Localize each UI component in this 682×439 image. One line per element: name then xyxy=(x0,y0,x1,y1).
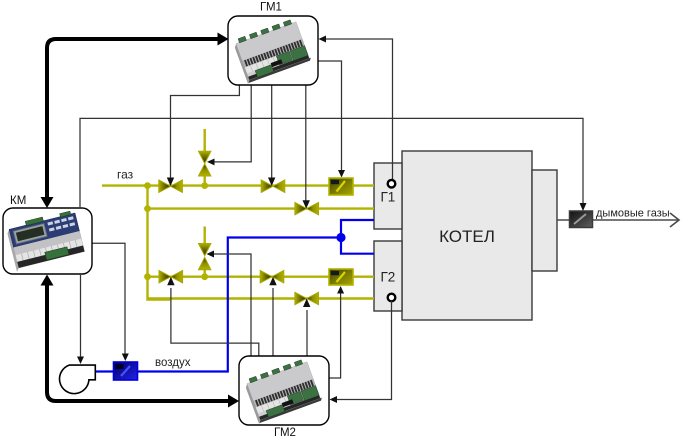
wire ГМ2 to Г2 line2 valve xyxy=(303,299,310,357)
wire ГМ2 to VA xyxy=(167,277,259,356)
wire ГМ2 to SV2 xyxy=(207,251,252,357)
damper2 (yellow) xyxy=(329,269,353,285)
blue node xyxy=(336,233,345,242)
node under SV1 xyxy=(201,182,208,189)
node under SV2 xyxy=(201,273,208,280)
wire КМ to air damper xyxy=(92,243,129,361)
svg-text:Г2: Г2 xyxy=(381,270,396,285)
wire ГМ2 to VB xyxy=(269,277,276,356)
wire ГМ1 to line2 valve xyxy=(303,85,310,209)
svg-text:дымовые газы: дымовые газы xyxy=(596,208,670,220)
valve VA Г2 line1 xyxy=(159,271,183,283)
wire ГМ1 to SV1 xyxy=(207,85,251,165)
flue outlet box xyxy=(532,170,557,271)
gas line 2 (Г1 lower) xyxy=(148,207,375,209)
node gas1 xyxy=(144,182,151,189)
burner Г1 box xyxy=(374,163,402,229)
flue damper xyxy=(570,211,593,228)
damper1 (yellow) xyxy=(329,178,353,195)
svg-text:ГМ1: ГМ1 xyxy=(260,2,282,14)
svg-text:КМ: КМ xyxy=(10,195,26,207)
svg-text:ГМ2: ГМ2 xyxy=(274,427,296,439)
module box ГМ1 xyxy=(228,16,318,85)
safety valve SV2 xyxy=(199,227,211,277)
cable КМ-ГМ2 (thick) xyxy=(41,275,240,408)
wire ГМ1 to V1 xyxy=(167,85,240,186)
cable КМ-ГМ1 (thick) xyxy=(41,33,229,209)
module box КМ xyxy=(3,208,92,274)
valve line2 xyxy=(295,202,319,214)
wire КМ to flue damper xyxy=(80,118,587,211)
wire КМ to fan xyxy=(77,275,84,364)
wire ГМ2 to damper2 xyxy=(329,286,344,378)
wire Г2 igniter to ГМ2 xyxy=(330,301,392,403)
burner Г2 box xyxy=(374,241,402,311)
igniter circle Г2 xyxy=(388,294,396,302)
fan xyxy=(60,365,96,394)
gas line Г2 lower xyxy=(148,297,375,299)
svg-text:КОТЕЛ: КОТЕЛ xyxy=(439,227,495,246)
valve V1 line1 xyxy=(159,180,183,192)
node Г2 upper xyxy=(144,273,151,280)
gas line 1 (Г1 upper) xyxy=(102,184,374,186)
gas line Г2 upper xyxy=(148,276,375,278)
valve VB Г2 line1 xyxy=(260,271,284,283)
wire ГМ1 to V2 xyxy=(268,85,275,186)
valve V2 line1 xyxy=(261,180,285,192)
air damper (blue) xyxy=(114,362,138,380)
blue air line fan to Г1/Г2 xyxy=(96,220,374,372)
svg-text:воздух: воздух xyxy=(155,357,191,369)
valve Г2 line2 xyxy=(295,292,319,304)
wire ГМ1 to damper1 xyxy=(318,61,345,178)
safety valve SV1 xyxy=(199,129,211,186)
module box ГМ2 xyxy=(239,356,329,425)
flue pipe дымовые газы xyxy=(557,208,679,228)
svg-text:газ: газ xyxy=(117,168,134,182)
igniter circle Г1 xyxy=(388,180,396,188)
gas main vertical xyxy=(148,186,171,300)
node gas2 xyxy=(144,205,151,212)
boiler КОТЕЛ xyxy=(402,151,532,320)
wire Г1 igniter to ГМ1 xyxy=(319,36,393,181)
svg-text:Г1: Г1 xyxy=(381,190,396,205)
